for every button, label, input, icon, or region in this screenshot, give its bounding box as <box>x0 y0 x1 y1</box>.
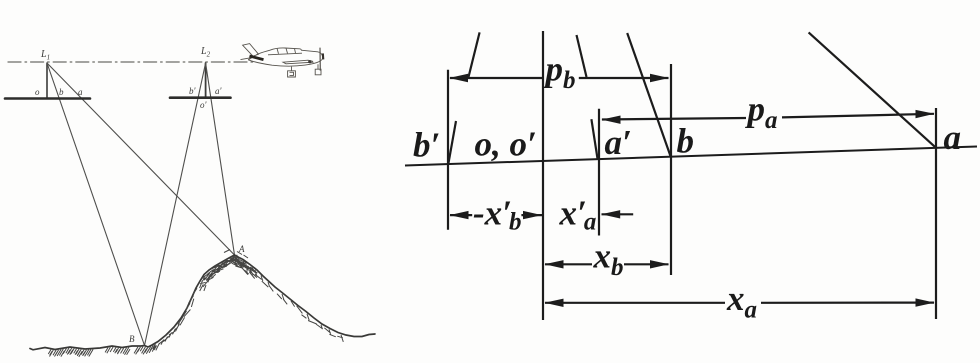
svg-text:o, o′: o, o′ <box>475 125 537 164</box>
svg-text:o: o <box>35 87 40 97</box>
svg-text:A: A <box>238 244 245 254</box>
svg-text:b: b <box>59 87 64 97</box>
svg-text:a: a <box>944 118 962 157</box>
svg-text:a′: a′ <box>605 123 632 162</box>
svg-text:b′: b′ <box>413 126 440 165</box>
svg-text:a: a <box>78 87 83 97</box>
svg-text:b': b' <box>189 86 197 96</box>
svg-text:a': a' <box>215 86 223 96</box>
svg-text:o': o' <box>200 100 208 110</box>
svg-text:B: B <box>129 334 135 344</box>
svg-text:b: b <box>677 122 695 161</box>
